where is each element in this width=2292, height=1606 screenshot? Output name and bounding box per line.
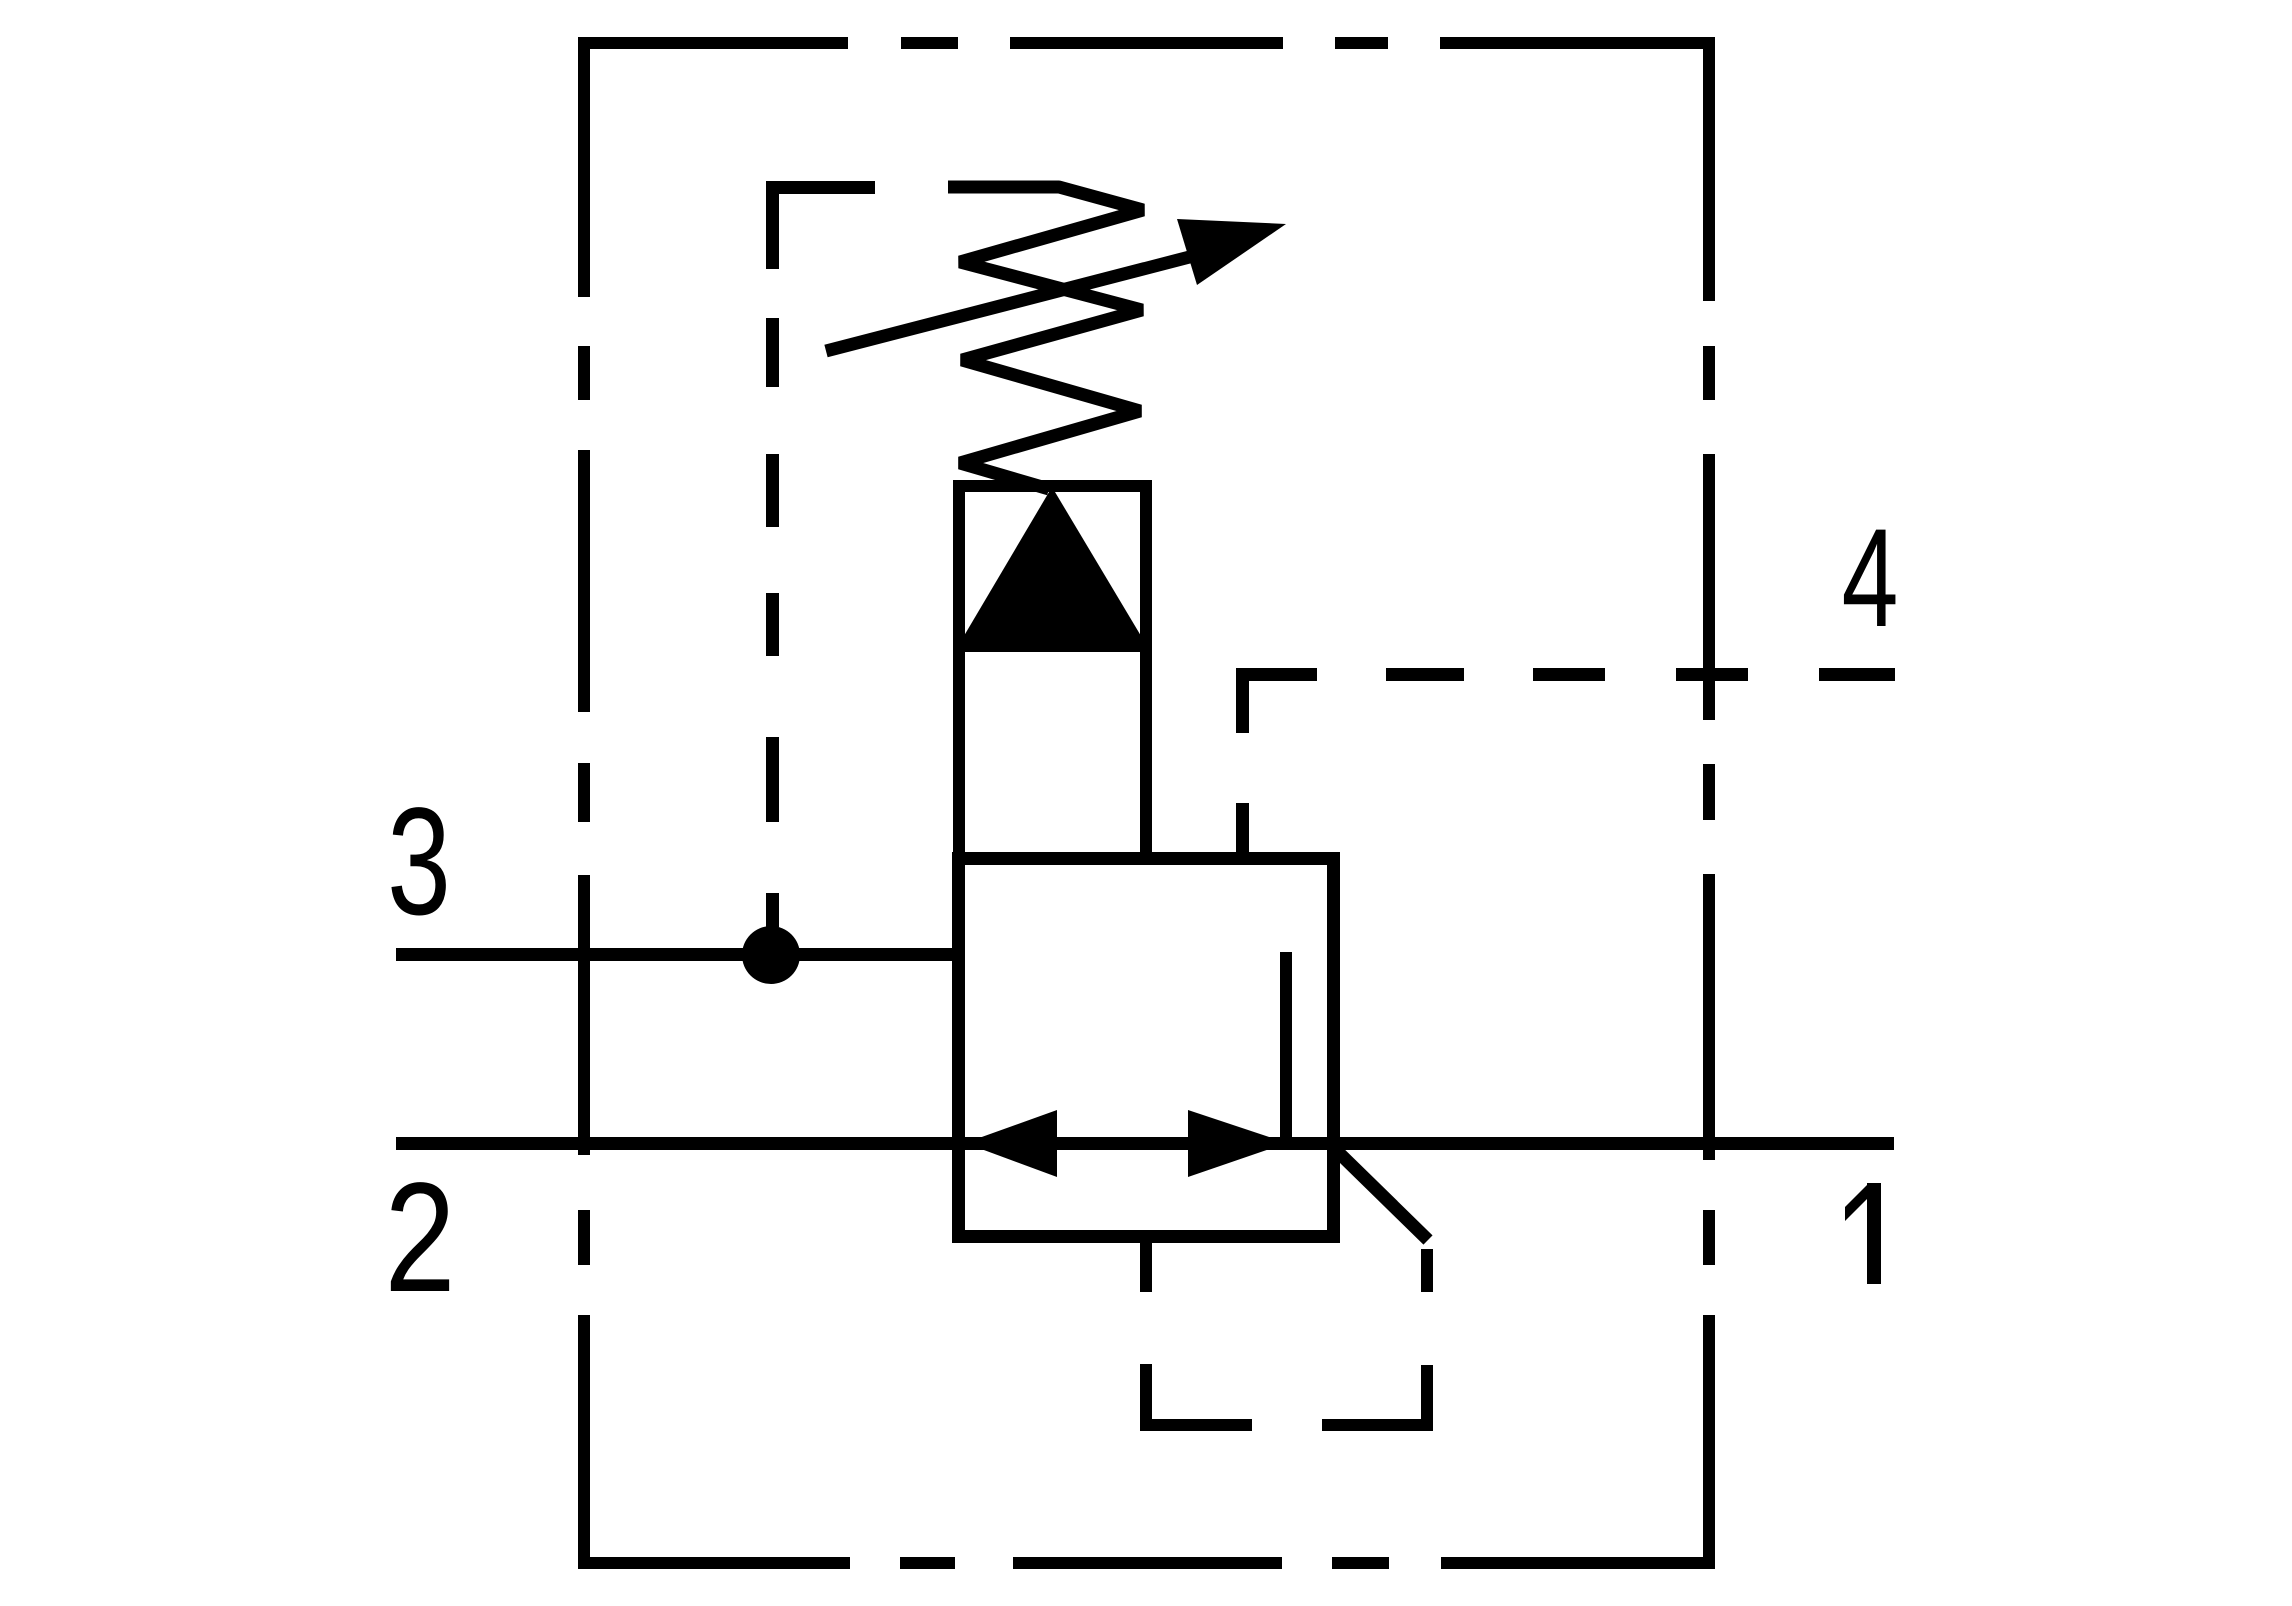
svg-text:3: 3 <box>387 776 451 947</box>
svg-text:2: 2 <box>384 1151 455 1325</box>
svg-text:4: 4 <box>1842 499 1899 655</box>
